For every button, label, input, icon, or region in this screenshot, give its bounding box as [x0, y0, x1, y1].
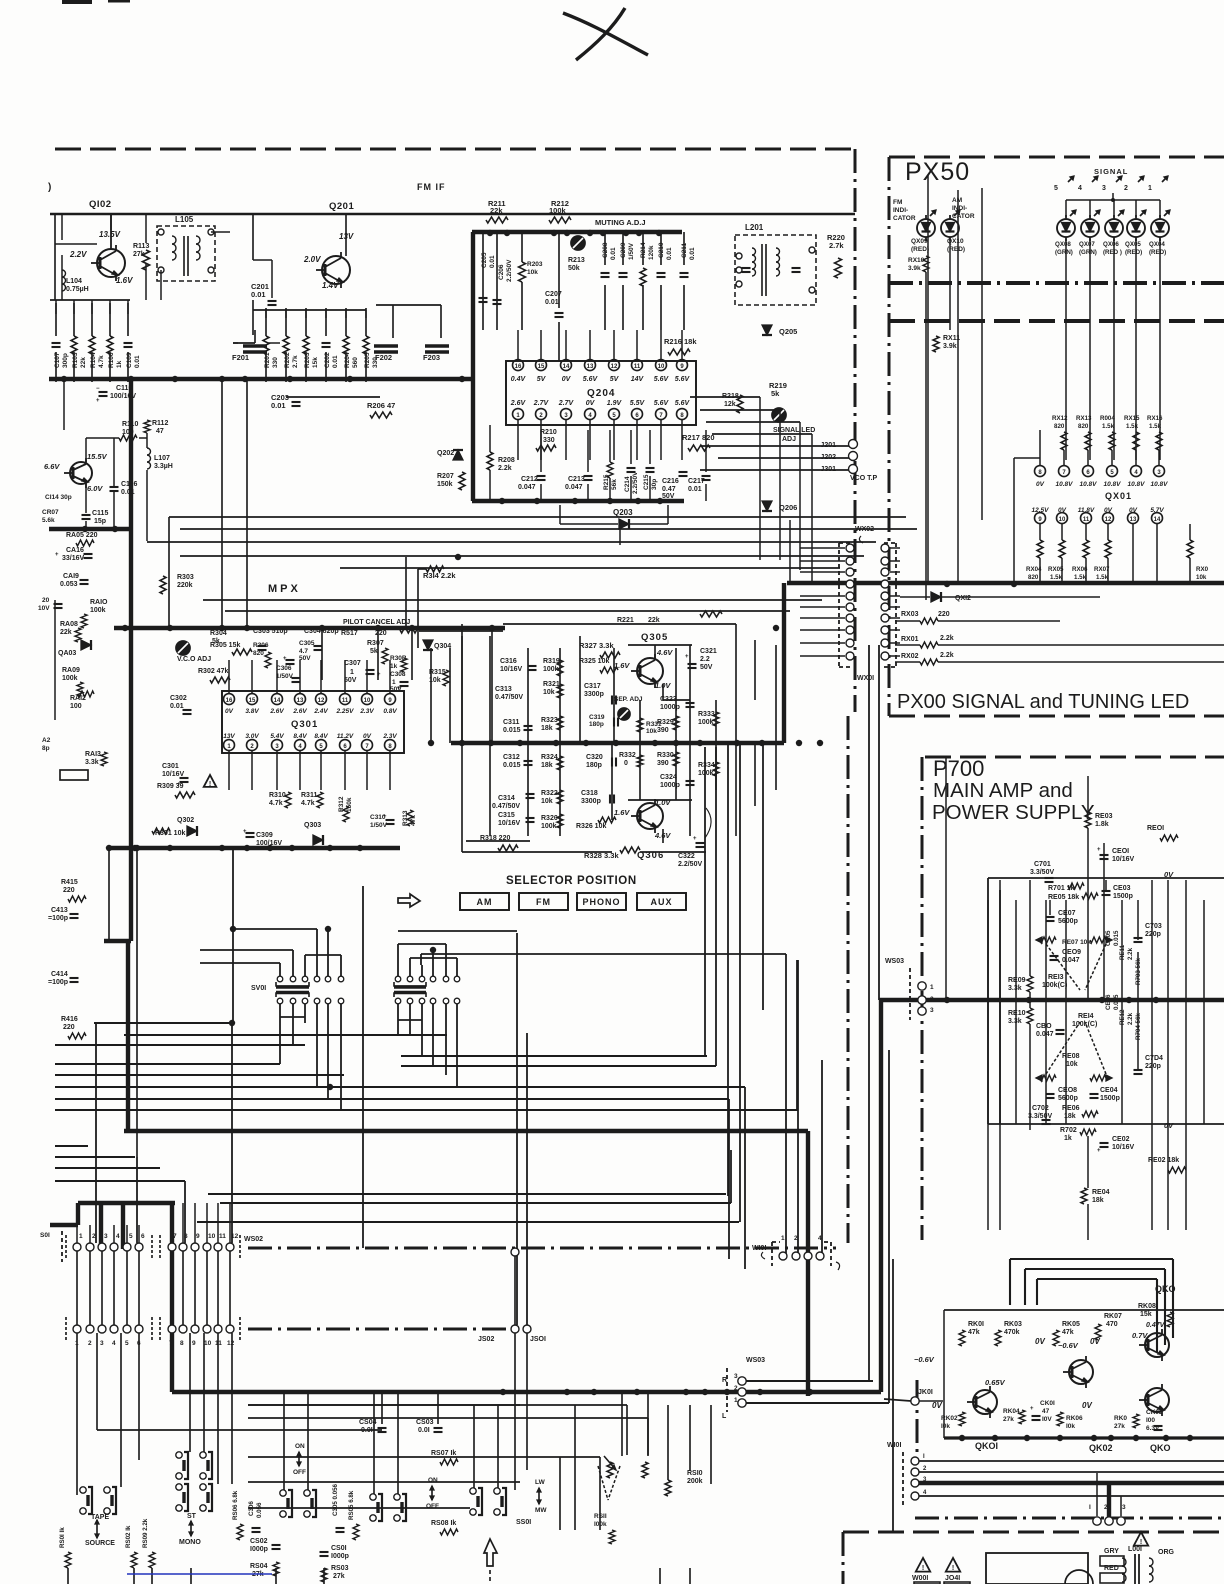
svg-text:12k: 12k [724, 401, 736, 408]
svg-text:=100p: =100p [48, 915, 68, 922]
svg-text:4: 4 [923, 1490, 927, 1496]
svg-text:(GRN): (GRN) [1055, 249, 1073, 256]
svg-text:18k: 18k [1092, 1197, 1104, 1204]
svg-text:3: 3 [930, 1007, 934, 1014]
svg-text:R309 39: R309 39 [157, 783, 184, 790]
svg-text:2.6V: 2.6V [510, 400, 527, 407]
svg-text:100: 100 [70, 703, 82, 710]
svg-text:10.8V: 10.8V [1056, 481, 1074, 488]
svg-text:330: 330 [543, 437, 555, 444]
svg-text:MPX: MPX [268, 583, 301, 595]
svg-text:R305 15k: R305 15k [210, 642, 240, 649]
svg-text:C703: C703 [1145, 923, 1162, 930]
svg-text:−0.6V: −0.6V [914, 1355, 935, 1364]
svg-text:QXI2: QXI2 [955, 595, 971, 602]
svg-text:C701: C701 [1034, 861, 1051, 868]
svg-text:0V: 0V [1035, 1337, 1045, 1346]
svg-text:2.3V: 2.3V [382, 733, 397, 740]
svg-text:R325 10k: R325 10k [579, 658, 609, 665]
svg-text:Q201: Q201 [329, 201, 354, 212]
svg-text:R221: R221 [617, 617, 634, 624]
svg-text:L00I: L00I [1128, 1546, 1142, 1553]
svg-text:2.2/50V: 2.2/50V [506, 259, 513, 282]
svg-text:(RED ): (RED ) [1103, 249, 1122, 256]
svg-text:R329: R329 [657, 719, 674, 726]
svg-text:C321: C321 [700, 648, 717, 655]
svg-text:5: 5 [129, 1233, 133, 1240]
svg-text:10: 10 [658, 364, 665, 370]
svg-text:0V: 0V [363, 733, 372, 740]
svg-text:12: 12 [227, 1340, 235, 1347]
svg-text:3: 3 [1157, 470, 1161, 476]
svg-text:820: 820 [1078, 423, 1089, 430]
svg-text:3.3µH: 3.3µH [154, 463, 173, 470]
svg-text:50V: 50V [299, 655, 311, 662]
svg-text:11: 11 [342, 698, 349, 704]
svg-text:QKOI: QKOI [975, 1441, 998, 1451]
svg-text:4.7k: 4.7k [269, 800, 283, 807]
svg-text:S0I: S0I [40, 1232, 50, 1239]
svg-text:100k: 100k [549, 206, 567, 215]
svg-text:56k: 56k [611, 479, 618, 490]
svg-text:1.5k: 1.5k [1096, 574, 1109, 581]
svg-text:0.056: 0.056 [256, 1502, 263, 1518]
svg-text:C312: C312 [503, 754, 520, 761]
svg-text:R210: R210 [540, 429, 557, 436]
svg-text:0.0I: 0.0I [418, 1427, 430, 1434]
svg-text:0V: 0V [1082, 1401, 1092, 1410]
svg-text:(RED): (RED) [1125, 249, 1142, 256]
svg-text:9: 9 [388, 698, 392, 704]
svg-text:RK05: RK05 [1062, 1321, 1080, 1328]
svg-text:+: + [1097, 1148, 1101, 1154]
svg-text:5.6V: 5.6V [675, 376, 691, 383]
svg-text:1k: 1k [116, 360, 123, 368]
svg-text:C209: C209 [620, 242, 627, 258]
svg-text:50V: 50V [662, 493, 675, 500]
svg-text:0.053: 0.053 [60, 581, 78, 588]
svg-text:R106: R106 [108, 352, 115, 368]
svg-text:2.2k: 2.2k [1127, 947, 1134, 960]
svg-text:2.25V: 2.25V [336, 708, 355, 715]
svg-text:RK06: RK06 [1066, 1415, 1083, 1422]
svg-text:SS0I: SS0I [516, 1519, 531, 1526]
svg-text:C214: C214 [624, 476, 631, 492]
svg-text:Q303: Q303 [304, 822, 321, 829]
svg-text:R324: R324 [541, 754, 558, 761]
svg-text:27k: 27k [133, 251, 145, 258]
svg-text:1500p: 1500p [1100, 1095, 1120, 1102]
svg-text:CE02: CE02 [1112, 1136, 1130, 1143]
svg-text:+: + [96, 398, 100, 404]
svg-text:3: 3 [104, 1233, 108, 1240]
svg-text:R306: R306 [253, 642, 269, 649]
svg-text:0.47: 0.47 [662, 486, 676, 493]
svg-text:1.6V: 1.6V [614, 808, 630, 817]
svg-text:10V: 10V [38, 605, 50, 612]
svg-text:820: 820 [1028, 574, 1039, 581]
svg-text:R207: R207 [437, 473, 454, 480]
svg-text:CE06: CE06 [1105, 994, 1112, 1010]
svg-text:+: + [685, 654, 689, 660]
svg-text:−: − [96, 386, 100, 392]
svg-text:R201: R201 [264, 352, 271, 368]
svg-text:12.5V: 12.5V [1032, 507, 1050, 514]
svg-text:100k: 100k [541, 823, 557, 830]
svg-text:RS09 2.2k: RS09 2.2k [142, 1518, 149, 1548]
svg-text:RS07 Ik: RS07 Ik [431, 1450, 456, 1457]
svg-text:50k: 50k [568, 265, 580, 272]
svg-text:6: 6 [635, 413, 639, 419]
svg-text:13V: 13V [223, 733, 235, 740]
svg-text:C208: C208 [602, 242, 609, 258]
svg-text:12: 12 [231, 1233, 239, 1240]
svg-text:JO4I: JO4I [945, 1575, 960, 1582]
svg-text:P700: P700 [933, 756, 984, 781]
svg-text:WX0I: WX0I [857, 675, 874, 682]
svg-text:!: ! [209, 781, 211, 788]
svg-text:1k: 1k [1064, 1135, 1072, 1142]
svg-text:470: 470 [1106, 1321, 1118, 1328]
svg-text:5.6V: 5.6V [654, 400, 670, 407]
svg-text:4: 4 [1078, 185, 1082, 192]
svg-text:2: 2 [88, 1340, 92, 1347]
svg-text:6: 6 [141, 1233, 145, 1240]
svg-text:+: + [283, 656, 287, 662]
svg-text:1.8k: 1.8k [1095, 821, 1109, 828]
svg-text:WS03: WS03 [746, 1357, 765, 1364]
svg-text:15: 15 [249, 698, 256, 704]
svg-text:2: 2 [539, 413, 543, 419]
svg-text:+: + [1097, 847, 1101, 853]
svg-text:33/16V: 33/16V [62, 555, 85, 562]
svg-text:R303: R303 [177, 574, 194, 581]
svg-text:3.3k: 3.3k [1008, 985, 1022, 992]
svg-text:3: 3 [564, 413, 568, 419]
svg-text:RX10: RX10 [908, 257, 925, 264]
svg-text:10: 10 [208, 1233, 216, 1240]
svg-text:C305: C305 [299, 640, 315, 647]
svg-text:R310: R310 [269, 792, 286, 799]
svg-text:2: 2 [930, 996, 934, 1003]
svg-text:C109: C109 [126, 352, 133, 368]
svg-text:1k: 1k [390, 663, 398, 670]
svg-text:QX01: QX01 [1105, 491, 1132, 501]
svg-text:10k: 10k [543, 689, 555, 696]
svg-text:RS02 Ik: RS02 Ik [125, 1525, 132, 1548]
svg-text:Q203: Q203 [613, 508, 633, 517]
svg-text:RK0I: RK0I [968, 1321, 984, 1328]
svg-text:6: 6 [1086, 470, 1090, 476]
svg-text:RA05 220: RA05 220 [66, 532, 98, 539]
svg-text:0.047: 0.047 [565, 484, 583, 491]
svg-text:R304: R304 [210, 630, 227, 637]
svg-text:+: + [1030, 1406, 1034, 1412]
svg-text:2.2k: 2.2k [498, 465, 512, 472]
svg-text:QX09: QX09 [911, 238, 928, 245]
svg-text:13: 13 [1130, 517, 1137, 523]
svg-text:3300p: 3300p [584, 691, 604, 698]
svg-text:QX08: QX08 [1055, 241, 1071, 248]
svg-text:2.6V: 2.6V [292, 708, 307, 715]
svg-text:0.01: 0.01 [271, 401, 286, 410]
svg-text:100k: 100k [90, 607, 106, 614]
svg-text:18k: 18k [541, 762, 553, 769]
svg-text:3: 3 [275, 744, 279, 750]
svg-text:C313: C313 [495, 686, 512, 693]
svg-text:120k: 120k [648, 245, 655, 260]
svg-text:0V: 0V [932, 1401, 942, 1410]
svg-text:3: 3 [806, 1235, 810, 1242]
svg-text:30p: 30p [651, 479, 658, 490]
svg-text:7: 7 [169, 1340, 173, 1347]
svg-text:R112: R112 [152, 420, 168, 427]
svg-text:14V: 14V [631, 376, 645, 383]
svg-text:RED: RED [1104, 1565, 1119, 1572]
svg-text:5: 5 [1110, 470, 1114, 476]
svg-text:CEO8: CEO8 [1058, 1087, 1077, 1094]
svg-text:C317: C317 [584, 683, 601, 690]
svg-text:1/50V: 1/50V [276, 673, 294, 680]
svg-text:13.5V: 13.5V [99, 230, 121, 239]
svg-text:14: 14 [563, 364, 570, 370]
svg-text:C319: C319 [589, 714, 605, 721]
svg-text:WX02: WX02 [855, 526, 874, 533]
svg-text:C115: C115 [92, 510, 108, 517]
svg-text:0V: 0V [1058, 507, 1067, 514]
svg-text:7: 7 [1062, 470, 1066, 476]
svg-text:2: 2 [923, 1466, 927, 1472]
svg-text:QKO: QKO [1150, 1443, 1171, 1453]
svg-text:2.7k: 2.7k [829, 241, 844, 250]
svg-text:0V: 0V [225, 708, 234, 715]
svg-text:8.4V: 8.4V [314, 733, 328, 740]
svg-text:RS04: RS04 [250, 1563, 268, 1570]
svg-text:10k: 10k [541, 798, 553, 805]
svg-text:POWER SUPPLY: POWER SUPPLY [932, 801, 1095, 824]
svg-text:R517: R517 [341, 630, 358, 637]
svg-text:0V: 0V [586, 400, 596, 407]
svg-text:15k: 15k [1140, 1311, 1152, 1318]
svg-text:0.01: 0.01 [134, 355, 141, 368]
svg-text:2.2: 2.2 [700, 656, 710, 663]
svg-text:CA16: CA16 [66, 547, 84, 554]
svg-text:RS03: RS03 [331, 1565, 349, 1572]
svg-text:C7D4: C7D4 [1145, 1055, 1163, 1062]
svg-text:8: 8 [680, 413, 684, 419]
svg-text:ADJ: ADJ [782, 436, 796, 443]
svg-text:GRY: GRY [1104, 1548, 1119, 1555]
svg-text:2: 2 [92, 1233, 96, 1240]
svg-text:R332: R332 [619, 752, 636, 759]
svg-text:R323: R323 [541, 717, 558, 724]
svg-text:C306: C306 [276, 665, 292, 672]
svg-text:JS02: JS02 [478, 1336, 494, 1343]
svg-text:1.5k: 1.5k [1149, 423, 1162, 430]
svg-text:3: 3 [1102, 185, 1106, 192]
svg-text:11: 11 [219, 1233, 226, 1240]
svg-text:1.5k: 1.5k [1050, 574, 1063, 581]
svg-text:5.6V: 5.6V [654, 376, 670, 383]
svg-text:VCO T.P: VCO T.P [850, 475, 878, 482]
svg-text:R702: R702 [1060, 1127, 1077, 1134]
svg-text:AUX: AUX [650, 897, 672, 907]
svg-text:3.9k: 3.9k [943, 343, 957, 350]
svg-text:0V: 0V [1090, 1337, 1100, 1346]
svg-text:9: 9 [196, 1233, 200, 1240]
svg-text:REI4: REI4 [1078, 1013, 1094, 1020]
svg-text:ORG: ORG [1158, 1549, 1175, 1556]
svg-text:2.0V: 2.0V [303, 255, 321, 264]
svg-text:390: 390 [657, 727, 669, 734]
svg-text:0V: 0V [1164, 1121, 1174, 1130]
svg-text:ON: ON [428, 1477, 438, 1484]
svg-text:R208: R208 [498, 457, 515, 464]
svg-text:0.047: 0.047 [1062, 957, 1080, 964]
svg-text:SOURCE: SOURCE [85, 1540, 115, 1547]
svg-text:(GRN): (GRN) [1079, 249, 1097, 256]
svg-text:CS02: CS02 [250, 1538, 268, 1545]
svg-text:2: 2 [250, 744, 254, 750]
svg-text:0.01: 0.01 [545, 299, 559, 306]
svg-text:16: 16 [515, 364, 522, 370]
svg-text:10k: 10k [1066, 1061, 1078, 1068]
svg-text:12: 12 [318, 698, 325, 704]
svg-text:0.01: 0.01 [666, 247, 673, 260]
svg-text:2: 2 [794, 1235, 798, 1242]
svg-text:RAIO: RAIO [90, 599, 108, 606]
svg-text:C318: C318 [581, 790, 598, 797]
svg-text:RK0: RK0 [1114, 1415, 1127, 1422]
svg-text:3.3/50V: 3.3/50V [1030, 869, 1054, 876]
svg-text:C308: C308 [390, 671, 406, 678]
svg-text:CR07: CR07 [42, 509, 59, 516]
svg-text:QK02: QK02 [1089, 1443, 1113, 1453]
svg-text:220: 220 [938, 611, 950, 618]
svg-text:15.5V: 15.5V [87, 452, 108, 461]
svg-text:R326 10k: R326 10k [576, 823, 606, 830]
svg-text:RE03: RE03 [1095, 813, 1113, 820]
svg-text:50V: 50V [344, 677, 357, 684]
svg-text:7: 7 [173, 1233, 177, 1240]
svg-text:4.7k: 4.7k [301, 800, 315, 807]
svg-text:820: 820 [1054, 423, 1065, 430]
svg-text:INDI-: INDI- [893, 207, 908, 214]
svg-text:R415: R415 [61, 879, 78, 886]
svg-text:C211: C211 [681, 242, 688, 258]
svg-text:C116: C116 [121, 481, 137, 488]
svg-text:ST: ST [187, 1513, 197, 1520]
svg-text:RX16: RX16 [1147, 415, 1163, 422]
svg-text:100k: 100k [62, 675, 78, 682]
svg-text:0V: 0V [1036, 481, 1045, 488]
svg-text:(RED): (RED) [1149, 249, 1166, 256]
svg-text:OFF: OFF [293, 1469, 306, 1476]
svg-text:I: I [1089, 1504, 1091, 1511]
svg-text:5V: 5V [537, 376, 547, 383]
svg-text:2.2k: 2.2k [940, 652, 954, 659]
svg-text:C305 0.056: C305 0.056 [332, 1483, 339, 1516]
svg-text:RX0: RX0 [1196, 566, 1209, 573]
svg-text:C212: C212 [521, 476, 538, 483]
svg-text:0.01: 0.01 [251, 290, 266, 299]
svg-text:0.01: 0.01 [688, 486, 702, 493]
svg-text:RA09: RA09 [62, 667, 80, 674]
svg-text:R302 47k: R302 47k [198, 668, 228, 675]
svg-text:14: 14 [274, 698, 281, 704]
svg-text:15k: 15k [312, 357, 319, 368]
svg-text:220: 220 [375, 630, 387, 637]
svg-text:RX12: RX12 [1052, 415, 1068, 422]
svg-text:C210: C210 [658, 242, 665, 258]
svg-text:C311: C311 [503, 719, 519, 726]
svg-text:820: 820 [253, 650, 264, 657]
svg-text:RSI0: RSI0 [687, 1470, 703, 1477]
svg-text:47k: 47k [968, 1329, 980, 1336]
svg-text:RK08: RK08 [1138, 1303, 1156, 1310]
svg-text:PX50: PX50 [905, 158, 970, 186]
svg-text:8: 8 [388, 744, 392, 750]
svg-text:2.7V: 2.7V [533, 400, 550, 407]
svg-text:R103: R103 [72, 352, 79, 368]
svg-text:27k: 27k [1114, 1423, 1125, 1430]
svg-text:11.2V: 11.2V [337, 733, 354, 740]
svg-text:220p: 220p [1145, 931, 1161, 938]
svg-text:8: 8 [180, 1340, 184, 1347]
svg-text:R110: R110 [122, 421, 138, 428]
svg-text:!: ! [1140, 1539, 1142, 1546]
svg-text:0.015: 0.015 [503, 727, 521, 734]
svg-text:7: 7 [659, 413, 663, 419]
svg-text:1: 1 [227, 744, 231, 750]
svg-text:RX02: RX02 [901, 653, 919, 660]
svg-text:2.2/50V: 2.2/50V [632, 471, 639, 494]
svg-text:0.01: 0.01 [121, 489, 135, 496]
svg-text:MONO: MONO [179, 1539, 201, 1546]
svg-text:0.015: 0.015 [503, 762, 521, 769]
svg-text:2: 2 [1104, 1504, 1108, 1511]
svg-text:CK0I: CK0I [1040, 1400, 1055, 1407]
svg-text:180p: 180p [589, 721, 604, 728]
svg-text:+: + [383, 814, 387, 820]
svg-text:2.2k: 2.2k [940, 635, 954, 642]
svg-text:1000p: 1000p [660, 704, 680, 711]
svg-text:R307: R307 [367, 640, 384, 647]
svg-text:I000p: I000p [250, 1546, 268, 1553]
svg-text:22k: 22k [80, 357, 87, 368]
svg-text:11: 11 [634, 364, 641, 370]
svg-text:JSOI: JSOI [530, 1336, 546, 1343]
svg-text:9: 9 [1038, 517, 1042, 523]
svg-text:5k: 5k [370, 648, 378, 655]
svg-text:27k: 27k [333, 1573, 345, 1580]
svg-text:RK04: RK04 [1003, 1408, 1020, 1415]
svg-text:C320: C320 [586, 754, 603, 761]
svg-text:RK07: RK07 [1104, 1313, 1122, 1320]
svg-text:Q301: Q301 [291, 719, 318, 730]
svg-text:RAI3: RAI3 [85, 751, 101, 758]
svg-text:R203: R203 [304, 352, 311, 368]
svg-text:3.3k: 3.3k [85, 759, 99, 766]
svg-text:WI0I: WI0I [887, 1442, 901, 1449]
svg-text:1: 1 [516, 413, 520, 419]
svg-text:+: + [243, 829, 247, 835]
svg-text:470k: 470k [1004, 1329, 1020, 1336]
svg-text:200k: 200k [687, 1478, 703, 1485]
svg-text:0.8V: 0.8V [383, 708, 397, 715]
svg-text:1500p: 1500p [1113, 893, 1133, 900]
svg-text:10k: 10k [527, 269, 538, 276]
